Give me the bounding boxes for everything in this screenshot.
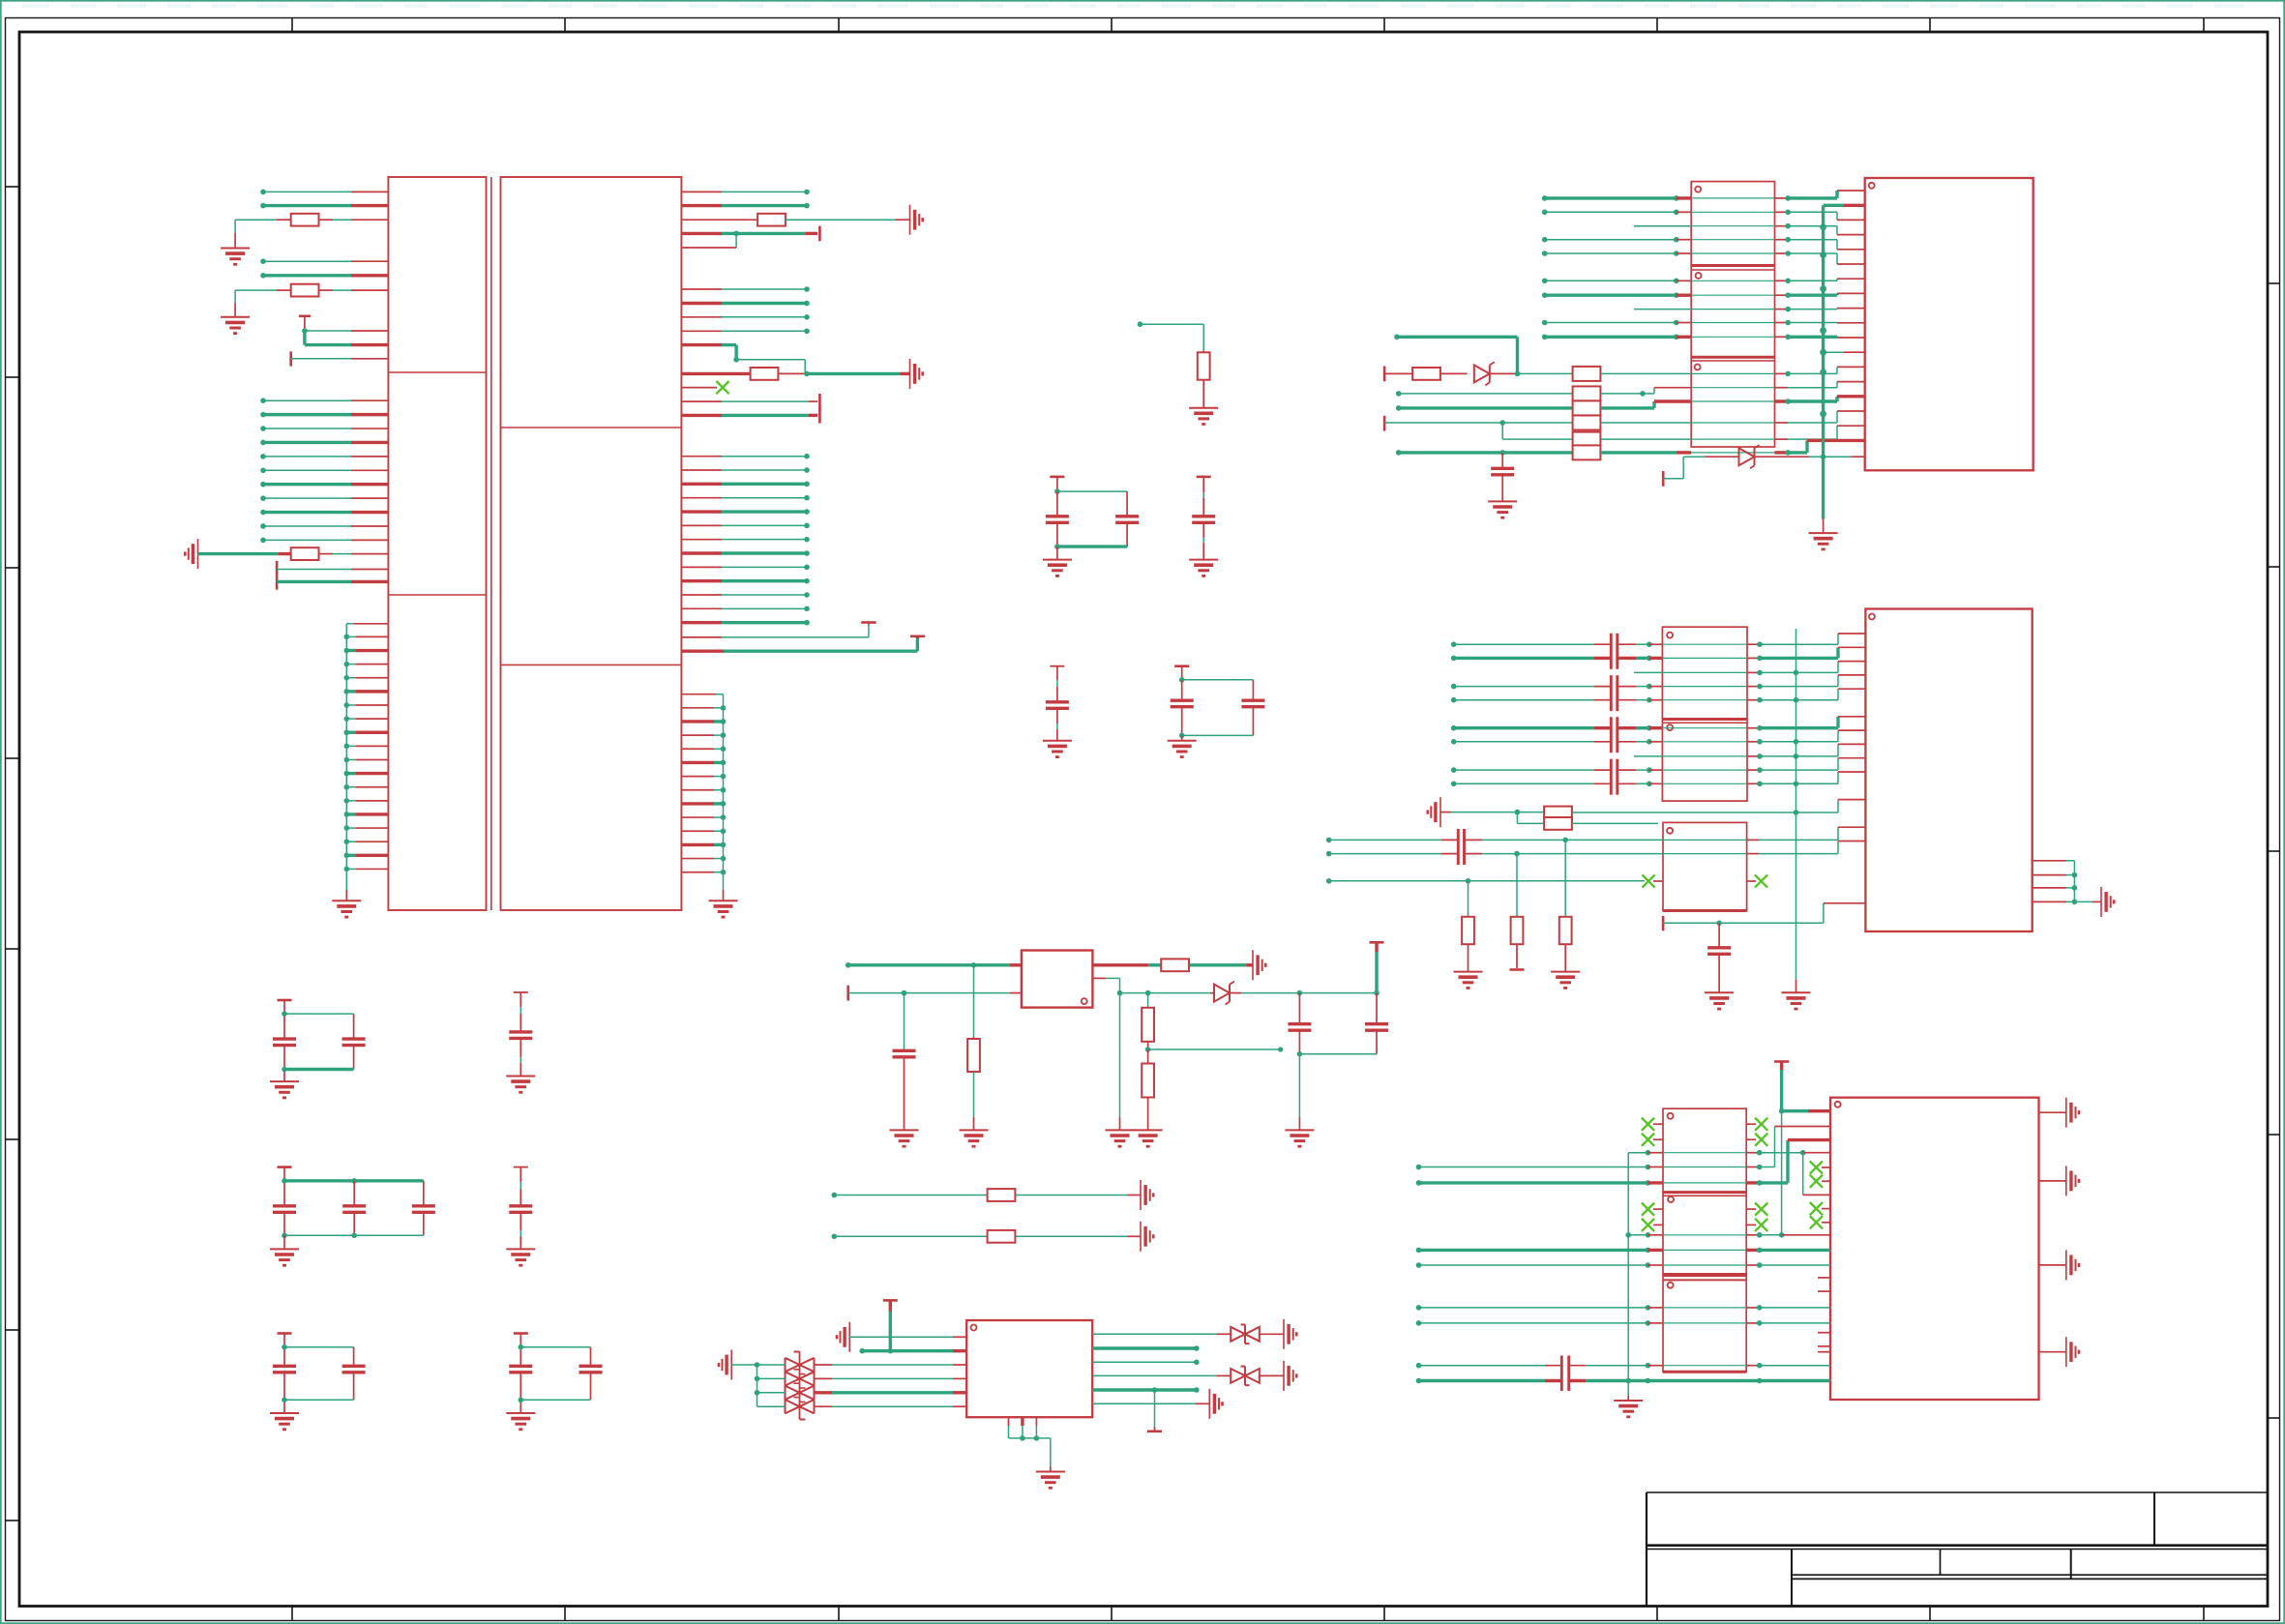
U2 pin-1 circle — [1082, 998, 1087, 1004]
U1B bus tap 11 — [681, 842, 726, 848]
ground bars GR5 — [1141, 1222, 1153, 1252]
bus jog pin J1 a — [1824, 351, 1865, 353]
U1B bus ground lead — [723, 890, 725, 901]
U2 output wire with resistor R9 — [1092, 959, 1253, 971]
U1B bus tap 10 — [681, 828, 726, 834]
U3 row 3 net — [1634, 223, 1865, 235]
U5 left nc pin y1250.1 — [1642, 1203, 1663, 1216]
U1B wire r10 capped — [681, 414, 817, 417]
U1A bus tap 5 — [344, 689, 389, 694]
U1A bus ground lead — [345, 890, 347, 901]
diode D2 on output rail — [1148, 982, 1380, 1005]
J2 pin-1 circle — [1869, 614, 1875, 620]
resistor R14 hanging — [1559, 840, 1572, 971]
ground GND23 — [1551, 972, 1580, 989]
capacitor C4a — [1171, 680, 1194, 736]
J3 right pin bars y1307.9 — [2039, 1250, 2080, 1280]
title block outline — [1647, 1492, 2268, 1607]
U4 row 4 net — [1451, 675, 1866, 689]
U4 row 8 net — [1634, 744, 1865, 758]
U1B bus tap 4 — [681, 746, 726, 752]
wire bus11-11 to U1A pin — [260, 538, 388, 544]
C12 top link — [282, 1178, 424, 1184]
U1B wire g3-10 — [681, 578, 809, 584]
mid bus junction y695.4 — [1794, 670, 1799, 676]
capacitor C1a power stub — [1050, 477, 1064, 494]
IC U6 body — [966, 1320, 1092, 1417]
U1A bus tap 16 — [344, 839, 389, 844]
U1B wire r2 — [681, 203, 809, 209]
bus top corner into J1 — [1824, 204, 1865, 207]
C15 top link — [519, 1344, 591, 1350]
wire end cap B2 — [818, 394, 821, 409]
U1B wire g3-7 — [681, 537, 809, 543]
series wire R17 — [832, 1189, 1142, 1201]
J3 right pin bars y1397.7 — [2039, 1337, 2080, 1367]
capacitor C4a power stub — [1174, 666, 1189, 683]
U1B wire g3-9 — [681, 565, 809, 571]
U5 unit2 row5 net — [1416, 1262, 1830, 1268]
U1B wire r3 with junction — [681, 231, 817, 237]
wire end cap B3 — [818, 407, 821, 423]
wire net3 to U1A pin — [260, 258, 388, 264]
J3 nc pin y1221.2 — [1810, 1175, 1830, 1188]
U1B wire r5 — [681, 301, 809, 307]
wire bus11-4 to U1A pin — [260, 440, 388, 446]
wire net4 to U1A pin — [260, 273, 388, 279]
resistor R11 divider bottom — [1142, 1049, 1154, 1130]
capped wire pair bar — [276, 561, 279, 590]
title block row1 divider — [2153, 1492, 2155, 1546]
U3 row 4 net — [1542, 237, 1865, 250]
power stub node with T cap — [299, 316, 389, 334]
U4B bottom wire — [1663, 903, 1865, 931]
U1B bus tap 6 — [681, 774, 726, 780]
IC U1 unit A body — [388, 177, 486, 910]
U1B wire r6 — [681, 314, 809, 320]
C1 top link wire — [1057, 490, 1127, 492]
connector J3 body — [1830, 1098, 2039, 1400]
U4 row 1 net — [1451, 634, 1866, 647]
resistor R6 from U1B — [681, 368, 909, 380]
J3 stub pin y1320.9 — [1818, 1277, 1830, 1279]
resistor R10 divider top — [1142, 993, 1154, 1052]
U1B no-connect pin — [681, 387, 717, 389]
U1B wire g3-5 — [681, 509, 809, 515]
frame top zone ticks — [292, 18, 2204, 33]
ground GND1 — [221, 249, 250, 265]
U1B wire g3-3 — [681, 482, 809, 487]
U1A bus tap 11 — [344, 771, 389, 777]
wire bus11-5 to U1A pin — [260, 454, 388, 459]
U1B bus tap 2 — [681, 719, 726, 724]
U4B row B — [1326, 842, 1866, 857]
C12 ground lead — [283, 1235, 285, 1249]
ground GND21 — [1488, 501, 1517, 517]
U3 row 9 net — [1542, 320, 1865, 326]
title block row2 left divider — [1791, 1550, 1793, 1607]
U6 right row2 — [1092, 1345, 1199, 1351]
TVS diode array DA1 — [786, 1352, 815, 1420]
U5 unit2 circle — [1668, 1196, 1674, 1202]
capped wire b to U1A — [277, 580, 388, 583]
J3 right pin bars y1150.2 — [2039, 1098, 2080, 1128]
U4 row 6 net — [1451, 717, 1866, 731]
U5 right nc pin y1178.2 — [1746, 1134, 1767, 1146]
U5 unit3 circle — [1668, 1283, 1674, 1288]
series cap pair y796.1 — [1611, 759, 1617, 795]
C15 bottom link — [519, 1398, 591, 1403]
bus junction dot y234.8 — [1820, 223, 1826, 230]
pull-down resistor R7 net — [1138, 321, 1204, 352]
U3 unit divider 1 — [1691, 266, 1774, 271]
connector J2 body — [1865, 609, 2032, 932]
capacitor C4b — [1241, 680, 1264, 736]
ground GND6 — [1043, 560, 1072, 576]
capacitor C14a — [273, 1334, 296, 1414]
J2 right pin 1 — [2033, 861, 2075, 902]
U3 unit1 circle — [1695, 187, 1701, 192]
ground GND5 — [1189, 408, 1218, 425]
capacitor C7 — [1365, 993, 1388, 1054]
U4 row 9 net — [1451, 758, 1866, 773]
title block cell divider a — [1940, 1550, 1942, 1576]
capacitor C1a — [1046, 491, 1069, 546]
ground bars GR7 — [1284, 1319, 1296, 1349]
ground GND13 — [506, 1249, 535, 1265]
ground GND15 — [506, 1413, 535, 1430]
bus junction dot y427.9 — [1820, 411, 1826, 418]
J3 right pin bars y1220.9 — [2039, 1166, 2080, 1196]
U1B bus tap 9 — [681, 814, 726, 820]
U1A bus tap 17 — [344, 853, 389, 859]
C14 top link — [282, 1344, 353, 1350]
resistor R2 with lead to U1A — [235, 214, 388, 249]
C6-C7 bottom link — [1299, 1053, 1377, 1055]
capped wire to U1A pin — [291, 351, 389, 366]
U1B wire g3-11 — [681, 592, 809, 598]
capacitor C2 with power stub — [1192, 477, 1215, 560]
U1B lower-right bus entry — [681, 694, 723, 890]
U4B row A — [1326, 827, 1866, 842]
resistor R13 row — [1517, 812, 1658, 830]
U5 unit3 row1 net — [1416, 1305, 1830, 1311]
no-connect X2 — [1642, 874, 1654, 887]
U3 row 10 net — [1394, 335, 1865, 340]
U1A bus tap 12 — [344, 784, 389, 790]
feedback rail — [1117, 990, 1151, 996]
capacitor C12c — [412, 1181, 435, 1236]
U6 TVS input bus — [731, 1362, 759, 1406]
TVS array row 2 leads — [757, 1377, 967, 1379]
title block inner horizontals — [1792, 1575, 2268, 1579]
resistor R19 — [1384, 368, 1468, 380]
capacitor C3 with power stub — [1046, 666, 1069, 741]
U5 unit divider 1 — [1663, 1193, 1746, 1196]
mid bus junction y723.7 — [1794, 697, 1799, 703]
ground GND12 — [270, 1249, 299, 1265]
regulator U2 body — [1022, 951, 1093, 1008]
U6 right row6 — [1092, 1403, 1209, 1404]
C4 ground lead — [1181, 735, 1183, 740]
U6 right row5 with stub — [1092, 1387, 1199, 1432]
U1B wire r9 capped — [681, 400, 817, 402]
U5 row5 net — [1416, 1140, 1830, 1186]
ground GND24 — [1454, 972, 1483, 989]
U5 row4 net — [1416, 1127, 1830, 1170]
capacitor C11 — [509, 992, 532, 1077]
bus junction dot y263.5 — [1820, 251, 1826, 258]
J3 stub pin y1377.7 — [1818, 1332, 1830, 1334]
J2 right pin 4 to bars — [2033, 900, 2101, 905]
level shifter U4B body — [1663, 822, 1747, 910]
level shifter U3 body — [1691, 182, 1774, 447]
J3 L-bracket net — [1803, 1153, 1830, 1196]
ground GND28 — [1036, 1472, 1065, 1489]
U4 row 5 net — [1451, 689, 1866, 702]
U5 unit divider 2 — [1663, 1275, 1746, 1280]
U1B bus tap 8 — [681, 801, 726, 807]
C14 bottom link — [282, 1398, 353, 1403]
U1B wire r1 — [681, 190, 809, 195]
capacitor C10b — [342, 1014, 366, 1069]
ground GND26 — [1782, 992, 1811, 1009]
J3 nc pin y1263.8 — [1810, 1216, 1830, 1228]
bus junction dot y364.2 — [1820, 349, 1826, 356]
resistor R15 hanging — [1510, 854, 1525, 970]
mid bus junction y781.9 — [1794, 753, 1799, 759]
ground bars GR9 — [1209, 1389, 1222, 1419]
series cap pair y709.6 — [1611, 675, 1617, 711]
U6 pin-1 circle — [971, 1325, 977, 1331]
C6 ground drop — [1298, 1054, 1300, 1131]
title block cell divider b — [2070, 1550, 2072, 1580]
J3 nc pin y1249.6 — [1810, 1202, 1830, 1215]
mid vertical bus — [1795, 629, 1797, 992]
wire end cap B1 — [818, 226, 821, 242]
U1B bus tap 3 — [681, 732, 726, 738]
U1B wire r8 with corner — [681, 345, 805, 374]
left power symbol PWR2 — [1428, 797, 1440, 827]
U1B wire g3-1 — [681, 454, 809, 459]
U1A bus tap 1 — [344, 635, 389, 640]
resistor R20 row — [1518, 367, 1865, 381]
ground GND14 — [270, 1413, 299, 1430]
power stub above C7 — [1370, 942, 1384, 992]
resistor R16 hanging — [1462, 881, 1474, 972]
U3 row 8 net — [1634, 307, 1865, 312]
U6 left row2 with power stub — [859, 1300, 966, 1353]
U1B wire g3-13 — [681, 620, 809, 626]
capped row with junction — [1384, 411, 1865, 431]
resistor R3 with lead to U1A — [235, 284, 388, 317]
ground bars GR1 — [910, 205, 923, 235]
U3 unit2 circle — [1696, 273, 1702, 279]
ground GND2 — [221, 317, 250, 334]
power stub T to J3 — [1774, 1062, 1830, 1235]
U1A bus tap 15 — [344, 825, 389, 831]
capacitor C15b — [579, 1347, 603, 1401]
U6 right row1 TVS — [1092, 1325, 1284, 1344]
ground GND10 — [270, 1081, 299, 1098]
connector J1 body — [1865, 178, 2033, 470]
capacitor C15a — [509, 1334, 532, 1414]
U4B no-connect left — [1653, 880, 1663, 882]
J2 right pin 2 — [2033, 872, 2078, 878]
U2 input wire — [846, 962, 1022, 968]
C4 top link wire — [1182, 679, 1254, 681]
U5 bottom thick edge — [1663, 1371, 1746, 1373]
U1B bus tap 1 — [681, 705, 726, 711]
U5 left nc pin y1266.4 — [1642, 1219, 1663, 1231]
ground GND9 — [1168, 741, 1197, 757]
capacitor C5 to ground — [893, 993, 916, 1131]
U4 unit1 circle — [1667, 633, 1673, 638]
wire bus11-8 to U1A pin — [260, 495, 388, 501]
J1 pin-1 circle — [1869, 183, 1875, 189]
U1B wire capped-up 1 — [681, 623, 875, 637]
C1 ground lead — [1056, 546, 1058, 560]
wire bus11-7 to U1A pin — [260, 482, 388, 487]
frame right zone ticks — [2268, 283, 2280, 1418]
wire from node down to U1A pin — [305, 331, 389, 345]
ground GND19 — [1134, 1130, 1163, 1146]
U4 unit divider — [1662, 720, 1747, 723]
resistor R4 from PWR1 to U1A — [198, 547, 389, 560]
bus junction dot y341.7 — [1820, 327, 1826, 334]
ground bars GR8 — [1284, 1361, 1296, 1391]
resistor R5 from U1B with ground-bars — [681, 214, 909, 226]
C1 bottom link wire — [1054, 544, 1127, 549]
IC U1 unit B body — [501, 177, 682, 910]
ground GND16 — [960, 1130, 989, 1146]
ground bars GR3 — [1253, 950, 1265, 980]
capacitor C8 — [1707, 923, 1731, 992]
IC U1 unit A section line 1 — [388, 371, 486, 373]
J3 stub pin y1397.7 — [1818, 1351, 1830, 1353]
J3 stub pin y1335.1 — [1818, 1290, 1830, 1292]
U1A bus tap 4 — [344, 675, 389, 681]
left power symbol PWR1 — [185, 539, 197, 569]
ground GND11 — [506, 1077, 535, 1093]
U4 row 10 net — [1451, 772, 1866, 786]
faint toolbar text ghost — [21, 4, 2244, 9]
wire net1 to U1A pin — [260, 190, 388, 195]
C10 junction top — [282, 1011, 353, 1017]
C10 junction bottom — [282, 1067, 353, 1073]
zener diode D4 branch — [1663, 445, 1865, 487]
ground GND20 — [1285, 1130, 1314, 1146]
U6 right row4 TVS — [1092, 1367, 1284, 1386]
U5 right nc pin y1162.2 — [1746, 1118, 1767, 1131]
left bars symbol GL2 — [719, 1350, 731, 1380]
J3 nc pin y1207 — [1810, 1161, 1830, 1173]
U1B wire g3-4 — [681, 495, 809, 501]
ground GND4 — [709, 901, 738, 917]
U1B wire capped-up 2 — [681, 636, 925, 651]
U1B wire r4 — [681, 286, 809, 292]
U4 unit2 circle — [1667, 724, 1673, 730]
U1A bus tap 2 — [344, 648, 389, 654]
U4B row C — [1326, 878, 1645, 884]
U3 row 1 net — [1542, 191, 1865, 201]
wire bus11-3 to U1A pin — [260, 426, 388, 431]
wire net2 to U1A pin — [260, 203, 388, 209]
U1A bus tap 18 — [344, 867, 389, 872]
ground GND27 — [1614, 1401, 1643, 1417]
U1B wire g3-6 — [681, 523, 809, 529]
U4 row 3 net — [1634, 662, 1865, 676]
resistor R8 to ground — [967, 965, 980, 1131]
resistor R22 row — [1396, 397, 1865, 416]
ground GND17 — [890, 1130, 919, 1146]
U5 row3 from bus corner — [1628, 1150, 1830, 1156]
ground GND7 — [1189, 560, 1218, 576]
J3 stub pin y1391.9 — [1818, 1345, 1830, 1347]
U1A bus tap 6 — [344, 702, 389, 708]
U6 left row1 — [849, 1336, 966, 1338]
U1A bus tap 13 — [344, 798, 389, 804]
IC U1 unit B section line 2 — [501, 664, 682, 665]
U3 unit3 circle — [1695, 365, 1701, 370]
ground GND25 — [1705, 992, 1734, 1009]
wire bus11-9 to U1A pin — [260, 510, 388, 516]
U5 left nc pin y1178.2 — [1642, 1134, 1663, 1146]
mid bus junction y810.3 — [1794, 782, 1799, 787]
J3 pin-1 circle — [1835, 1102, 1841, 1107]
U2 enable wire capped — [848, 986, 1022, 1001]
divider mid tap wire — [1148, 1047, 1284, 1051]
U3 unit divider 2 — [1691, 357, 1774, 361]
capacitor C13 — [509, 1167, 532, 1250]
U1B wire r7 — [681, 329, 809, 335]
U3 row 5 net — [1542, 251, 1865, 264]
wire bus11-10 to U1A pin — [260, 523, 388, 529]
input cap bar — [1383, 367, 1386, 382]
series cap pair C9 — [1561, 1356, 1568, 1392]
U1B bus tap 5 — [681, 760, 726, 766]
U1A bus tap 9 — [344, 744, 389, 750]
level shifter U4 body — [1662, 627, 1747, 801]
vertical bus right of U3 — [1822, 205, 1825, 533]
vertical bus line between U1A and U1B — [490, 177, 492, 910]
IC U1 unit B section line 1 — [501, 427, 682, 428]
U6 right row3 — [1092, 1360, 1199, 1366]
series cap pair y666.2 — [1611, 634, 1617, 669]
U4B bottom thick edge — [1663, 909, 1747, 912]
wire bus11-1 to U1A pin — [260, 398, 388, 403]
capacitor C1b — [1115, 491, 1139, 546]
resistor R21 row — [1396, 382, 1865, 401]
U1B bus tap 13 — [681, 870, 726, 875]
U3 row 2 net — [1542, 210, 1865, 221]
C4 bottom link wire — [1179, 733, 1254, 739]
ground bars GR2 — [910, 359, 923, 389]
series wire R18 — [832, 1230, 1142, 1243]
U4 row 2 net — [1451, 647, 1866, 661]
capacitor C14b — [342, 1347, 366, 1401]
left bars symbol GL1 — [837, 1322, 849, 1352]
bus junction dot y384.8 — [1820, 369, 1826, 375]
U1A bus tap 10 — [344, 757, 389, 763]
U4B circle — [1667, 828, 1673, 834]
U1A bus tap 3 — [344, 662, 389, 667]
capped wire a to U1A — [277, 569, 388, 571]
mid bus junction y840 — [1794, 810, 1799, 815]
thick bottom row with cap C16 — [1396, 440, 1865, 459]
wire net to U3 corner — [1516, 337, 1519, 373]
U5 right nc pin y1250.1 — [1746, 1203, 1767, 1216]
